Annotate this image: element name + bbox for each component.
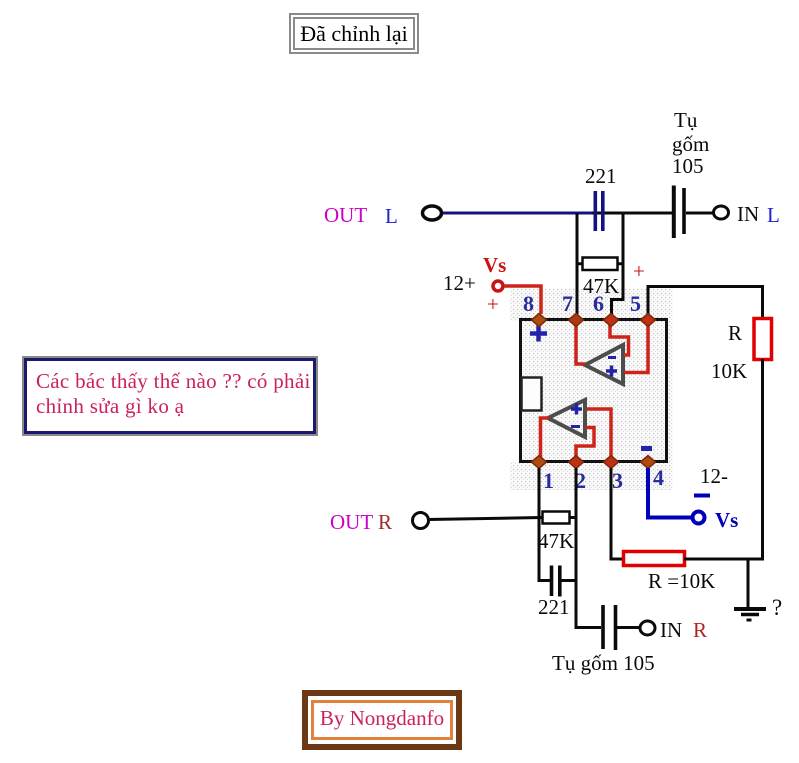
svg-text:3: 3 [612, 468, 623, 493]
wire C105 to IN R [617, 626, 641, 629]
svg-text:221: 221 [585, 164, 617, 188]
wire pin 2 to U1B inverting input (red) [576, 428, 594, 462]
capacitor 221 (left, navy plates) [595, 191, 603, 231]
wire pin 2 down [576, 468, 601, 628]
pin 2 [569, 456, 584, 469]
label Tu gom 105 (top) [672, 108, 709, 178]
wire Vs+ to pin 8 (red) [504, 286, 541, 314]
terminal OUT R [413, 513, 429, 529]
svg-text:R: R [728, 321, 742, 345]
wire pin 6 to U1A inverting input (red) [610, 321, 629, 355]
pin 1 orientation notch [522, 378, 542, 411]
label IN L [737, 202, 780, 227]
V- mark (inside IC near pin 4) [641, 446, 652, 451]
svg-text:+: + [487, 292, 499, 316]
svg-text:R: R [693, 618, 707, 642]
wire pin 3 down [611, 468, 623, 559]
svg-text:5: 5 [630, 291, 641, 316]
U1A non-inverting mark + [606, 366, 617, 377]
wire OUT R to 47K [428, 518, 542, 520]
terminal IN L [714, 206, 729, 219]
wire pin 1 down [539, 468, 550, 581]
terminal OUT L [423, 206, 442, 220]
wire OUT L (navy) [442, 212, 594, 215]
resistor R 10K (bottom, red) [624, 552, 685, 566]
wire C221 to C105 [592, 212, 672, 215]
pin 8 [532, 314, 547, 327]
svg-text:47K: 47K [538, 529, 574, 553]
U1B inverting mark - [571, 425, 580, 428]
svg-text:IN: IN [660, 618, 682, 642]
wire node to pin 6 [612, 213, 624, 317]
IC selection background (stippled region) [510, 288, 673, 490]
resistor R 10K (vertical, red) [754, 319, 772, 360]
wire R 10K to right rail [684, 558, 764, 561]
pin 6 [604, 314, 619, 327]
resistor 47K (top) [577, 258, 623, 271]
wire ground stub [747, 560, 750, 608]
pin 5 [641, 314, 656, 327]
svg-text:+: + [633, 259, 645, 283]
svg-text:1: 1 [543, 468, 554, 493]
U1B non-inverting mark + [571, 404, 582, 415]
wire U1B output to pin 1 (red) [541, 418, 550, 461]
by box [302, 690, 462, 750]
wire pin 7 to U1A output (red) [576, 321, 585, 364]
label OUT R [330, 510, 392, 534]
svg-text:Vs: Vs [715, 508, 738, 532]
svg-text:12-: 12- [700, 464, 728, 488]
svg-text:6: 6 [593, 291, 604, 316]
minus mark (blue) [694, 494, 710, 498]
wire pin 3 to U1B non-inverting input (red) [587, 409, 612, 461]
wire node to pin 7 [576, 213, 579, 317]
U1A inverting mark - [608, 356, 616, 359]
svg-text:10K: 10K [711, 359, 747, 383]
svg-text:Tụ: Tụ [674, 108, 698, 132]
capacitor Tu gom 105 (left channel) [674, 186, 684, 239]
svg-text:OUT: OUT [324, 203, 367, 227]
svg-text:?: ? [772, 595, 782, 620]
svg-text:R =10K: R =10K [648, 569, 715, 593]
svg-text:OUT: OUT [330, 510, 373, 534]
pin 4 [641, 456, 656, 469]
svg-text:105: 105 [672, 154, 704, 178]
svg-text:L: L [385, 204, 398, 228]
svg-text:gốm: gốm [672, 132, 709, 156]
wire pin 5 to R 10K [648, 287, 763, 320]
svg-text:4: 4 [653, 465, 664, 490]
svg-text:Vs: Vs [483, 253, 506, 277]
capacitor 221 (bottom) [552, 566, 577, 597]
svg-text:7: 7 [562, 291, 573, 316]
terminal Vs+ (red) [493, 281, 503, 291]
op-amp U1B (bottom, points left) [548, 400, 585, 437]
op-amp IC body U1 [521, 320, 667, 462]
wire pin 5 to U1A non-inverting input (red) [625, 321, 649, 373]
wire R 10K down right side [761, 359, 764, 561]
op-amp U1A (top, points left) [585, 345, 623, 384]
svg-text:IN: IN [737, 202, 759, 226]
message box [22, 356, 318, 436]
label IN R [660, 618, 707, 642]
svg-text:12+: 12+ [443, 271, 476, 295]
wire C105 to IN L [686, 212, 714, 215]
svg-text:L: L [767, 203, 780, 227]
terminal IN R [640, 621, 655, 635]
pin 3 [604, 456, 619, 469]
label OUT L [324, 203, 398, 228]
ground symbol [734, 609, 766, 620]
svg-text:R: R [378, 510, 392, 534]
capacitor Tu gom 105 (right channel) [603, 605, 616, 650]
pin 7 [569, 314, 584, 327]
wire pin 4 to Vs- (blue) [648, 468, 692, 518]
resistor 47K (bottom) [543, 512, 577, 524]
svg-text:221: 221 [538, 595, 570, 619]
svg-text:8: 8 [523, 291, 534, 316]
V+ mark (inside IC near pin 8) [530, 326, 547, 342]
title box "Da chinh lai" [289, 13, 419, 54]
terminal Vs- (blue) [693, 512, 705, 524]
pin 1 [532, 456, 547, 469]
svg-text:Tụ gốm 105: Tụ gốm 105 [552, 651, 655, 675]
